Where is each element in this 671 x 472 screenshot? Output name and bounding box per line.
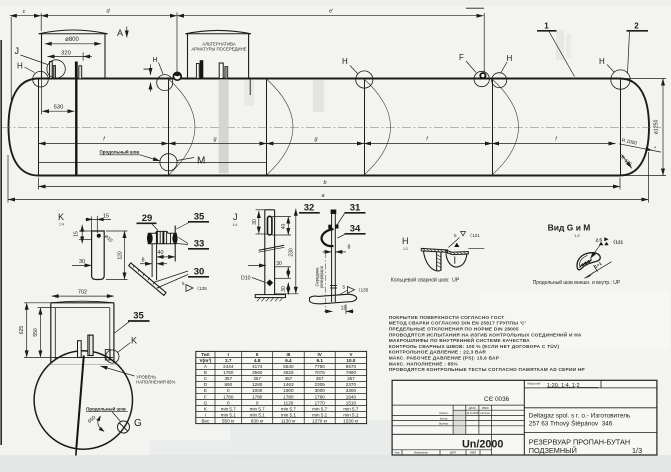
svg-text:III: III (286, 352, 290, 357)
svg-text:1770: 1770 (315, 400, 326, 405)
svg-text:H: H (153, 57, 158, 64)
svg-text:2305: 2305 (315, 382, 326, 387)
svg-text:15: 15 (74, 231, 80, 237)
svg-text:10.0: 10.0 (346, 358, 355, 363)
svg-text:МАКС. НАПОЛНЕНИЕ : 85%: МАКС. НАПОЛНЕНИЕ : 85% (389, 361, 459, 367)
svg-text:1120: 1120 (283, 400, 293, 405)
tank centre dash-dot line (324, 252, 326, 312)
svg-text:40: 40 (157, 250, 163, 256)
svg-text:ДАТА: ДАТА (450, 451, 457, 455)
label M with leader (177, 156, 205, 167)
outer frame (392, 380, 657, 455)
svg-text:32: 32 (304, 203, 315, 214)
svg-text:min 5.1: min 5.1 (250, 412, 266, 417)
svg-text:АРМАТУРЫ ПОСЕРЕДИНЕ: АРМАТУРЫ ПОСЕРЕДИНЕ (191, 47, 246, 52)
svg-text:Un/2000: Un/2000 (462, 439, 503, 451)
dim 230 far right (295, 209, 297, 294)
svg-text:G: G (204, 400, 208, 405)
svg-text:9.1: 9.1 (317, 358, 324, 363)
dim 120 right (124, 231, 126, 280)
cut face bar (436, 252, 438, 271)
f/g dimension chain y=143.5 (39, 137, 616, 144)
balloon K on lug (106, 350, 119, 363)
svg-text:c: c (23, 9, 26, 15)
dome dia dimension 702 (52, 295, 114, 297)
label H left head with leader (17, 62, 35, 73)
reference line to right (468, 247, 484, 249)
svg-text:530: 530 (54, 105, 64, 111)
svg-text:1530 кг: 1530 кг (343, 418, 359, 423)
svg-text:30: 30 (281, 286, 287, 292)
dim 30 top left (258, 211, 260, 234)
svg-text:min 5.1: min 5.1 (221, 412, 237, 417)
svg-text:24.8.2005: 24.8.2005 (466, 411, 478, 415)
svg-text:29: 29 (142, 213, 153, 224)
lug hole (97, 234, 101, 238)
label J with leader (15, 46, 48, 65)
dished head projection arc at seam 168.5 (169, 79, 196, 175)
svg-text:35: 35 (194, 212, 205, 223)
dim 15 top (86, 218, 112, 220)
small stop knob (335, 225, 338, 229)
bottom revision row (392, 449, 492, 451)
svg-text:J: J (233, 212, 238, 222)
svg-text:a: a (321, 193, 324, 199)
balloon M on longitudinal weld (160, 154, 177, 171)
svg-text:0: 0 (227, 388, 230, 393)
dim 15 left vertical (81, 225, 83, 244)
tank shell circle (34, 351, 132, 449)
balloon F at x=482 (474, 71, 489, 86)
svg-text:15: 15 (103, 213, 109, 219)
upper shell plate left (hatched) (421, 248, 447, 252)
svg-text:5: 5 (454, 233, 457, 238)
svg-text:Продольный шов: Продольный шов (86, 405, 126, 411)
dimension e (177, 15, 484, 17)
svg-text:ДАТА: ДАТА (469, 406, 476, 410)
svg-text:ø800: ø800 (65, 37, 79, 43)
leader 34 to hook (338, 235, 345, 239)
svg-text:Масштаб: Масштаб (528, 382, 541, 386)
balloon H at seam 364 (356, 71, 373, 88)
dim 30 bottom (287, 283, 289, 295)
hook loop (322, 229, 334, 246)
extension tick at 177 (176, 13, 178, 73)
svg-text:8: 8 (348, 245, 351, 251)
svg-text:40: 40 (281, 224, 287, 230)
svg-text:0: 0 (256, 400, 259, 405)
dimension 550 (39, 308, 41, 358)
part label 2 with leader (627, 22, 649, 74)
svg-text:1:20, 1:4, 1:2: 1:20, 1:4, 1:2 (547, 383, 580, 389)
svg-text:357: 357 (347, 376, 355, 381)
dip tube (tilted) (76, 356, 83, 448)
dished head projection arc at seam 492 (492, 79, 519, 175)
svg-text:2: 2 (634, 22, 639, 31)
right part horizontals (524, 407, 657, 409)
dip tube pipe through tank x=76 (75, 62, 77, 175)
svg-text:7790: 7790 (315, 364, 326, 369)
rod (331, 210, 333, 303)
svg-text:H: H (17, 62, 23, 71)
svg-text:Изменение: Изменение (414, 451, 428, 455)
weld seam x=364 (364, 79, 366, 176)
lug on tank top (105, 350, 110, 360)
tank diameter dimension 1250 (622, 79, 666, 176)
svg-text:1130 кг: 1130 кг (281, 418, 296, 423)
svg-text:2.5: 2.5 (596, 237, 603, 242)
svg-text:КОНТРОЛЬНОЕ ДАВЛЕНИЕ : 22,3: КОНТРОЛЬНОЕ ДАВЛЕНИЕ : 22,3 BAR (389, 350, 487, 356)
svg-text:1:4: 1:4 (233, 223, 238, 227)
svg-text:2444: 2444 (223, 364, 234, 369)
balloon H at seam 168 (157, 75, 173, 91)
weld seam x=38.5 (left head weld) (38, 79, 40, 176)
svg-text:Контр.: Контр. (440, 416, 448, 420)
a dimension y=199.5 (8, 152, 648, 203)
svg-text:ПОДЗЕМНЫЙ: ПОДЗЕМНЫЙ (529, 446, 577, 455)
svg-text:1000: 1000 (252, 388, 263, 393)
skid strip diagonal (129, 263, 166, 296)
svg-text:1463: 1463 (283, 382, 294, 387)
svg-text:830 кг: 830 кг (251, 418, 264, 423)
svg-text:МАКС. РАБОЧЕЕ ДАВЛЕНИЕ (PS):: МАКС. РАБОЧЕЕ ДАВЛЕНИЕ (PS): 15,6 БАР (389, 356, 500, 362)
head knuckle radius label R192 (619, 155, 633, 169)
dimension 625 (26, 303, 28, 358)
leader arrow to rod (248, 265, 266, 267)
svg-text:Продольный шов внешн. и внутр.: Продольный шов внешн. и внутр.: UP (533, 279, 621, 286)
svg-text:15: 15 (341, 305, 347, 311)
svg-text:I: I (205, 412, 206, 417)
longitudinal weld note in main view (100, 149, 161, 161)
svg-text:〈135: 〈135 (356, 288, 369, 293)
svg-text:30: 30 (194, 267, 205, 278)
svg-text:H: H (342, 57, 348, 66)
centerline of tank (2, 127, 661, 129)
tank shell outline (9, 79, 650, 176)
svg-text:1640: 1640 (346, 394, 357, 399)
leader 29 to drum (152, 224, 158, 231)
svg-text:4174: 4174 (252, 364, 263, 369)
svg-text:F: F (459, 53, 464, 62)
svg-text:K: K (58, 212, 64, 222)
svg-text:1: 1 (544, 22, 549, 31)
weld seam x=266.5 (266, 79, 268, 176)
leader to joint (448, 238, 459, 248)
svg-text:B: B (204, 370, 207, 375)
leader 31 to rod top (337, 214, 345, 226)
svg-text:5: 5 (182, 281, 185, 286)
left small grid verticals (452, 405, 454, 434)
leaders 33 to drum end (179, 238, 189, 244)
dimension d (41, 15, 177, 17)
leg plate (151, 244, 153, 277)
svg-text:1780: 1780 (252, 394, 263, 399)
svg-text:min 5.7: min 5.7 (343, 406, 359, 411)
svg-text:1280: 1280 (252, 382, 263, 387)
head radius label R1000 (619, 138, 661, 153)
label H at seam 168 with leader (153, 57, 164, 74)
leaders 30 to skid strip (154, 271, 189, 283)
svg-text:J: J (15, 46, 20, 56)
dimension 530 (42, 79, 75, 115)
upper shell plate right (lapped, hatched) (446, 250, 468, 254)
svg-text:min 5.1: min 5.1 (281, 412, 297, 417)
svg-text:357: 357 (224, 376, 232, 381)
balloon H at right head weld (611, 70, 630, 89)
svg-text:7890: 7890 (346, 370, 357, 375)
svg-text:30: 30 (252, 219, 258, 225)
svg-text:min 5.1: min 5.1 (343, 412, 359, 417)
base plate (255, 295, 285, 298)
rod through drum (174, 226, 176, 262)
svg-text:230: 230 (289, 248, 295, 257)
svg-text:1780: 1780 (283, 394, 294, 399)
b dimension y=186.3 (39, 178, 621, 190)
balloon J around left dome pipes (47, 60, 65, 78)
svg-text:320: 320 (61, 51, 71, 57)
svg-text:Кольцевой сварной шов: UP: Кольцевой сварной шов: UP (391, 277, 460, 284)
table text (200, 352, 359, 423)
label H at seam 492 with leader (501, 54, 513, 73)
svg-text:ПРОВОДЯТСЯ КОНТРОЛЬНЫЕ ТЕСТЫ С: ПРОВОДЯТСЯ КОНТРОЛЬНЫЕ ТЕСТЫ СОГЛАСНО ПА… (389, 367, 586, 373)
svg-text:625: 625 (19, 326, 25, 335)
svg-text:1780: 1780 (315, 394, 326, 399)
dished head projection arc at seam 266.5 (267, 79, 294, 175)
svg-text:1:2: 1:2 (403, 247, 408, 251)
svg-text:D10: D10 (241, 276, 251, 282)
svg-text:КОНТРОЛЬ СВАРНЫХ ШВОВ: 100 %: КОНТРОЛЬ СВАРНЫХ ШВОВ: 100 % (ЕСЛИ НЕТ Д… (389, 343, 560, 350)
svg-text:5540: 5540 (283, 364, 294, 369)
view direction marker A (117, 27, 127, 39)
note 1+1 with tick (585, 262, 612, 279)
lower hole (266, 279, 273, 286)
svg-text:Вычерт.: Вычерт. (439, 422, 449, 426)
svg-text:357: 357 (285, 376, 293, 381)
svg-text:550 кг: 550 кг (222, 418, 235, 423)
dimension 320 (48, 51, 93, 61)
dome inner walls (54, 308, 56, 360)
arc length dim 650 (98, 416, 104, 431)
column lines (214, 351, 216, 423)
designer rows (439, 411, 490, 425)
svg-text:1370 кг: 1370 кг (312, 418, 328, 423)
row lines (196, 356, 367, 358)
svg-text:ИМЯ: ИМЯ (470, 451, 476, 455)
collar on rod (330, 285, 337, 287)
part label 1 with leader (537, 22, 575, 77)
extension line at F nozzle (483, 13, 485, 72)
left small grid horizontals (392, 404, 524, 406)
svg-text:357: 357 (316, 376, 324, 381)
label H at seam 364 with leader (342, 57, 358, 74)
svg-text:Изм: Изм (395, 451, 400, 455)
svg-text:2370: 2370 (346, 382, 357, 387)
weld seam x=620 (right head weld) (620, 79, 622, 176)
svg-text:1/3: 1/3 (632, 446, 642, 455)
svg-text:1780: 1780 (223, 370, 234, 375)
balloon H at left head weld (33, 71, 49, 87)
leader to weld blob (590, 245, 600, 259)
svg-text:30: 30 (79, 259, 85, 265)
weld seam x=492 (492, 79, 494, 176)
F nozzle dark ring (480, 73, 485, 78)
leader 35 to rod (177, 223, 190, 230)
svg-text:3560: 3560 (252, 370, 263, 375)
svg-text:Тип: Тип (201, 352, 209, 357)
svg-text:3300: 3300 (346, 388, 357, 393)
svg-text:1:4: 1:4 (59, 223, 64, 227)
svg-text:120: 120 (118, 251, 124, 260)
weld cross-section blob (577, 253, 600, 270)
dished head projection arc at seam 364 (364, 79, 391, 175)
extension line dome wall (40, 13, 42, 31)
svg-text:b: b (323, 180, 326, 186)
scan tint streaks (230, 420, 480, 458)
lug plate (92, 231, 105, 280)
svg-text:F: F (204, 394, 207, 399)
svg-text:2.7: 2.7 (225, 358, 232, 363)
svg-text:МЕТОД СВАРКИ СОГЛАСНО DIN EN 2: МЕТОД СВАРКИ СОГЛАСНО DIN EN 25817 ГРУПП… (389, 321, 527, 327)
dim 40 right (287, 217, 289, 236)
svg-text:35: 35 (133, 311, 144, 322)
svg-text:257 63 Trhový Štěpánov 346: 257 63 Trhový Štěpánov 346 (529, 419, 613, 428)
cut-away pocket below (left lobe) (424, 251, 442, 271)
weld marker G (circle with cross) (118, 421, 130, 433)
svg-text:min 5.7: min 5.7 (221, 406, 237, 411)
svg-text:0: 0 (227, 400, 230, 405)
pipes in dome (78, 341, 82, 358)
svg-text:4826: 4826 (283, 370, 294, 375)
dim 30 (72, 264, 92, 266)
svg-text:890: 890 (224, 382, 232, 387)
svg-text:1780: 1780 (223, 394, 234, 399)
dome top rim (51, 302, 114, 304)
longitudinal weld line (39, 162, 267, 164)
svg-text:34: 34 (350, 224, 361, 235)
weld triangle mark (454, 243, 459, 247)
extension line left head tip (10, 17, 12, 100)
dim 8 (140, 263, 152, 265)
svg-text:30: 30 (276, 261, 282, 267)
svg-text:357: 357 (253, 376, 261, 381)
shell plate strip (wavy) (310, 294, 357, 304)
svg-text:G: G (134, 418, 142, 429)
svg-text:ПОКРЫТИЕ ПОВЕРХНОСТИ СОГЛАСНО: ПОКРЫТИЕ ПОВЕРХНОСТИ СОГЛАСНО ГОСТ (389, 315, 505, 321)
balloon H at seam 492 (492, 73, 507, 88)
svg-text:4.8: 4.8 (254, 358, 261, 363)
svg-text:5: 5 (343, 285, 346, 290)
svg-text:702: 702 (78, 290, 87, 296)
cut-away pocket (right lobe) (446, 253, 467, 267)
svg-text:M: M (197, 156, 205, 167)
svg-text:1:2: 1:2 (574, 234, 579, 238)
svg-text:min 5.1: min 5.1 (312, 412, 328, 417)
sheet left border (0, 40, 2, 445)
svg-text:резервуара: резервуара (319, 265, 324, 287)
svg-text:33: 33 (194, 239, 205, 250)
dimension c (10, 15, 41, 17)
nozzle circle at x=177 (173, 72, 181, 80)
svg-text:3000: 3000 (315, 388, 326, 393)
slot hole capsule (268, 216, 272, 235)
svg-text:〈121: 〈121 (468, 233, 481, 238)
svg-text:V(m³): V(m³) (200, 358, 212, 363)
svg-text:1510: 1510 (346, 400, 357, 405)
right dome middle pipes (196, 60, 227, 78)
svg-text:A: A (117, 28, 123, 38)
clamp tab diagonal (259, 245, 285, 250)
svg-text:31: 31 (350, 203, 361, 214)
weld seam x=168.5 (168, 79, 170, 176)
right manhole dome (alternative) (186, 30, 251, 95)
svg-text:H: H (507, 54, 513, 63)
neck weld line on tank (52, 356, 113, 358)
svg-text:Продольный шов: Продольный шов (100, 149, 140, 155)
svg-text:Вид G и M: Вид G и M (548, 223, 591, 233)
svg-text:ИМЯ: ИМЯ (482, 406, 489, 410)
rod body (264, 210, 266, 295)
svg-text:Констр.: Констр. (439, 411, 449, 415)
svg-text:K: K (131, 336, 137, 346)
label F with leader (459, 53, 476, 73)
left dome nozzle pipes (50, 62, 82, 79)
left manhole dome (39, 30, 108, 79)
fill level line 85% (50, 364, 118, 366)
svg-text:CЄ 0036: CЄ 0036 (484, 396, 510, 403)
svg-text:I: I (228, 352, 229, 357)
svg-text:H: H (599, 57, 605, 66)
svg-text:550: 550 (33, 328, 39, 337)
svg-text:7076: 7076 (315, 370, 326, 375)
svg-text:ПРЕДЕЛЬНЫЕ ОТКЛОНЕНИЯ ПО НОРМЕ: ПРЕДЕЛЬНЫЕ ОТКЛОНЕНИЯ ПО НОРМЕ DIN 28005 (389, 327, 519, 333)
svg-text:1900: 1900 (283, 388, 294, 393)
svg-text:H: H (402, 236, 409, 246)
small thickness dim near x=150 (144, 64, 151, 91)
svg-text:ø1250: ø1250 (654, 120, 660, 135)
svg-text:8: 8 (141, 257, 144, 263)
svg-text:E: E (204, 388, 207, 393)
svg-text:min 5.7: min 5.7 (312, 406, 328, 411)
drum (ribbed roller) (148, 231, 176, 243)
svg-text:min 5.7: min 5.7 (281, 406, 297, 411)
svg-text:8570: 8570 (346, 364, 357, 369)
svg-text:II: II (256, 352, 259, 357)
grey weld band below right dome (219, 79, 229, 173)
svg-text:6.4: 6.4 (285, 358, 292, 363)
svg-text:Вес: Вес (201, 418, 210, 423)
top dimension chain line y=15.7 (10, 8, 484, 100)
svg-text:НАПОЛНЕНИЯ 85%: НАПОЛНЕНИЯ 85% (136, 379, 175, 384)
svg-text:min 5.7: min 5.7 (250, 406, 266, 411)
svg-text:Hromas: Hromas (480, 411, 490, 415)
scale cell (524, 387, 657, 389)
manhole dome outer walls (50, 303, 52, 363)
svg-text:Deltagaz spol. s r. o.- Изгото: Deltagaz spol. s r. o.- Изготовитель (529, 412, 631, 419)
dim 40 (157, 256, 176, 258)
dome dia dimension 800 (45, 37, 102, 44)
main vertical divider (523, 380, 525, 455)
label H right head with leader (599, 57, 614, 72)
svg-text:〈135: 〈135 (195, 286, 208, 291)
